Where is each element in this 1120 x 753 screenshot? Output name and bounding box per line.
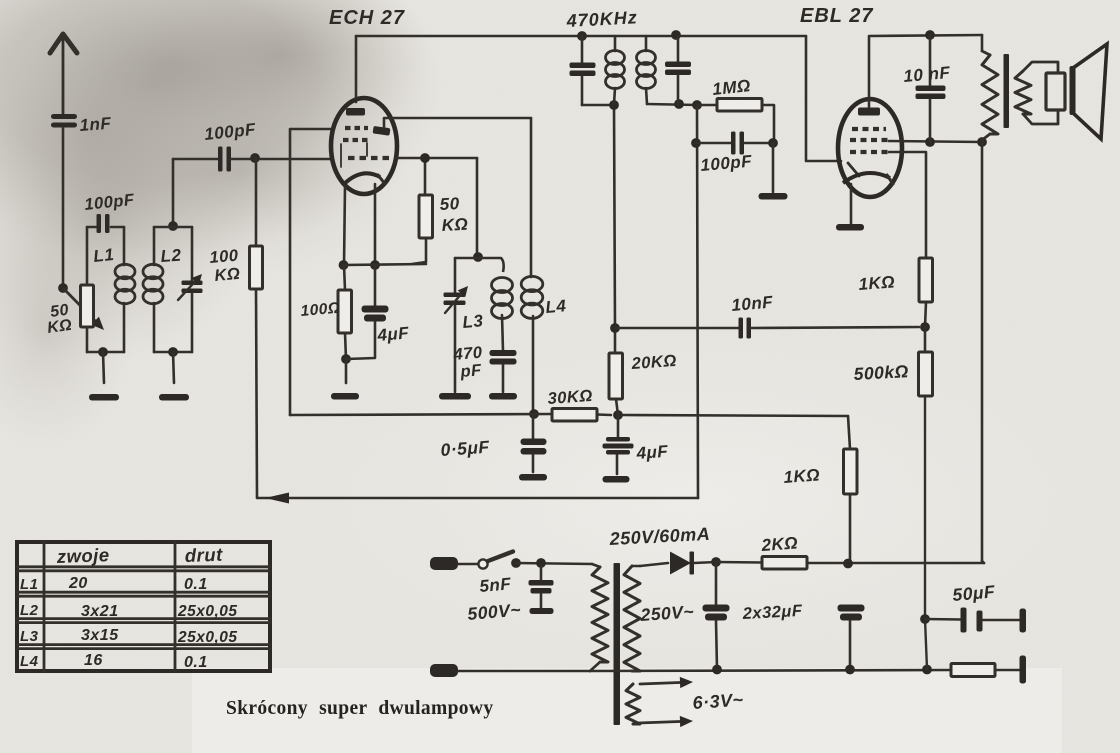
svg-text:100: 100 — [209, 246, 240, 266]
wire grid to L2 top — [172, 159, 175, 226]
EBL21 grid hook — [848, 163, 859, 176]
node antenna-pot junction — [58, 283, 68, 293]
node L3 top — [473, 252, 483, 262]
capacitor 10nF AF coupling — [615, 318, 919, 339]
wire B+ to output transformer — [981, 35, 984, 51]
svg-text:1KΩ: 1KΩ — [783, 465, 821, 487]
svg-text:L4: L4 — [20, 653, 39, 670]
svg-text:3x15: 3x15 — [81, 627, 119, 644]
wire B+ rail right — [981, 142, 984, 561]
svg-text:ECH 27: ECH 27 — [329, 7, 405, 29]
svg-text:L1: L1 — [20, 576, 39, 593]
resistor 2KΩ — [716, 557, 984, 570]
node top bus right — [671, 30, 681, 40]
svg-text:EBL 27: EBL 27 — [800, 5, 873, 27]
node L1 bottom — [98, 347, 108, 357]
wire cathode bottom — [343, 264, 426, 265]
ECH21 grid row 2 — [343, 138, 369, 142]
svg-text:pF: pF — [459, 361, 483, 381]
svg-text:250V~: 250V~ — [639, 601, 695, 625]
svg-text:30KΩ: 30KΩ — [547, 387, 593, 408]
svg-text:0·5μF: 0·5μF — [440, 437, 491, 460]
capacitor 0.5μF — [521, 414, 547, 472]
potentiometer 50kΩ body — [81, 227, 94, 352]
svg-text:2x32μF: 2x32μF — [741, 602, 803, 623]
node 50μF left — [920, 614, 930, 624]
node switch — [511, 558, 521, 568]
wire ground bus bottom — [590, 670, 951, 671]
svg-text:4μF: 4μF — [635, 442, 669, 463]
wire EBL screen to B+ — [889, 141, 982, 142]
resistor 1KΩ cathode — [844, 416, 858, 563]
ground L1 — [89, 352, 119, 401]
mains transformer core — [614, 563, 621, 725]
svg-text:1MΩ: 1MΩ — [711, 76, 751, 99]
svg-text:500kΩ: 500kΩ — [853, 361, 909, 384]
coil table — [17, 542, 270, 671]
wire 500K to ground bus — [925, 619, 927, 669]
diode rectifier — [670, 552, 716, 575]
node 100Ω bottom — [341, 354, 351, 364]
speaker driver — [1046, 73, 1065, 110]
ECH21 cathode arc — [344, 173, 385, 184]
resistor 1KΩ screen — [919, 258, 933, 327]
light area bottom caption strip — [192, 668, 1062, 753]
output transformer core — [1004, 54, 1010, 128]
capacitor 470pF — [490, 350, 517, 392]
heater lead arrow top — [640, 682, 680, 684]
node ground bus 3 — [922, 665, 932, 675]
resistor 100Ω — [338, 265, 352, 359]
node 100pF left — [691, 138, 701, 148]
wire EBL21 anode lead — [869, 35, 982, 107]
coil IF secondary — [637, 36, 656, 104]
EBL21 grid row 2 — [850, 138, 890, 142]
node ground bus 1 — [712, 665, 722, 675]
table row L1 — [20, 575, 208, 593]
capacitor 100pF coupling — [173, 147, 332, 172]
wire ECH21 anode to top bus — [355, 36, 358, 102]
node ground bus 2 — [845, 665, 855, 675]
output transformer secondary — [1015, 62, 1058, 124]
wire L1 bottom — [87, 351, 124, 354]
node IF sec cap bottom — [674, 99, 684, 109]
svg-text:16: 16 — [84, 652, 103, 669]
wire oscillator grid vertical — [290, 129, 333, 415]
wire plug to switch — [458, 563, 477, 566]
wire EBL diode out — [889, 152, 926, 258]
resistor 50KΩ oscillator grid — [412, 158, 433, 264]
svg-text:L2: L2 — [160, 246, 182, 266]
svg-text:L1: L1 — [92, 245, 115, 266]
capacitor 50μF — [925, 608, 1019, 633]
capacitor 10nF anode — [916, 35, 946, 142]
wire B+ corner — [982, 561, 984, 563]
coil IF primary — [606, 36, 625, 104]
node screen divider — [920, 322, 930, 332]
scan smudge top-left — [0, 0, 445, 260]
svg-text:zwoje: zwoje — [55, 544, 110, 567]
wire L2 bottom — [154, 351, 192, 354]
capacitor IF secondary — [665, 36, 691, 104]
svg-text:50μF: 50μF — [952, 581, 997, 605]
svg-text:3x21: 3x21 — [81, 603, 119, 620]
svg-text:1KΩ: 1KΩ — [858, 272, 896, 294]
switch — [478, 552, 513, 569]
node IF primary bottom — [609, 100, 619, 110]
ECH21 signal grid row — [348, 156, 392, 160]
node detector junction — [610, 323, 620, 333]
ground L2 — [159, 352, 189, 401]
wire L3 top — [455, 257, 501, 260]
wire oscillator bus y415 — [290, 414, 552, 415]
capacitor 100pF AVC — [696, 132, 773, 155]
wire top bus — [356, 35, 806, 38]
svg-text:470KHz: 470KHz — [565, 7, 638, 31]
ECH21 triode anode bar — [373, 126, 391, 136]
node grid junction — [250, 153, 260, 163]
resistor 1MΩ — [697, 99, 774, 144]
svg-text:25x0,05: 25x0,05 — [177, 603, 238, 620]
chassis terminal bottom — [1020, 656, 1027, 684]
variable capacitor on L2 — [178, 227, 203, 352]
ground 470pF — [489, 393, 517, 400]
tube ECH21 envelope — [331, 98, 397, 194]
wire IF secondary bottom — [647, 104, 697, 105]
wire EBL grid bus — [806, 36, 841, 161]
table row L2 — [20, 602, 238, 620]
EBL21 anode bar — [858, 108, 880, 116]
mains transformer primary — [590, 564, 608, 671]
mains transformer secondary — [624, 566, 640, 671]
wire EBL21 cathode lead — [850, 184, 853, 224]
wire AVC vertical — [697, 105, 698, 498]
svg-text:Skrócony super dwulampowy: Skrócony super dwulampowy — [226, 698, 493, 719]
potentiometer 50kΩ wiper arrow — [64, 289, 95, 321]
capacitor 2x32μF second — [838, 605, 865, 670]
node screen 10nF — [925, 137, 935, 147]
node IF cap left — [577, 31, 587, 41]
speaker cone mouth bar — [1070, 66, 1076, 115]
wire IF secondary down — [614, 105, 615, 328]
svg-text:0.1: 0.1 — [184, 576, 208, 593]
wire plug bottom to transformer — [458, 670, 590, 673]
label 470 pF — [452, 343, 484, 381]
capacitor 100pF on L1 — [87, 214, 124, 233]
wire to L3 top — [476, 158, 479, 253]
resistor 20KΩ — [609, 328, 623, 415]
ground 4μF detector — [603, 476, 630, 483]
table row L3 — [20, 627, 238, 646]
coil L3 — [492, 258, 513, 351]
node L4 bottom — [529, 409, 539, 419]
mains plug top — [430, 557, 458, 570]
svg-text:20KΩ: 20KΩ — [630, 352, 677, 373]
label 50 KΩ (oscillator) — [439, 194, 469, 235]
svg-text:1nF: 1nF — [79, 114, 112, 135]
ground EBL21 cathode — [836, 224, 864, 231]
node EBL anode bus — [925, 30, 935, 40]
wire signal grid to oscillator — [396, 157, 477, 160]
resistor ground-bus to chassis — [951, 664, 1019, 677]
tube EBL21 envelope — [838, 99, 902, 197]
svg-text:L3: L3 — [20, 628, 39, 645]
wire AVC bus with arrow — [257, 493, 698, 504]
capacitor IF primary — [570, 36, 615, 105]
node filter mid — [843, 559, 853, 569]
ground L3 left — [439, 393, 471, 400]
EBL21 cathode arc — [843, 173, 893, 184]
capacitor 4μF oscillator — [347, 265, 389, 359]
heater lead arrow bottom — [638, 721, 680, 723]
node 5nF top — [536, 558, 546, 568]
svg-text:L3: L3 — [462, 311, 484, 332]
svg-text:6·3V~: 6·3V~ — [692, 689, 744, 713]
mains plug bottom — [430, 664, 458, 677]
svg-text:L2: L2 — [20, 602, 39, 619]
capacitor 1nF — [51, 114, 77, 288]
EBL21 grid row 1 — [852, 127, 886, 131]
coil L1 — [115, 227, 135, 352]
svg-text:4μF: 4μF — [376, 323, 410, 345]
label 50KΩ left — [46, 302, 73, 337]
svg-text:50: 50 — [439, 194, 460, 214]
coil L2 — [143, 227, 163, 352]
antenna symbol — [50, 34, 77, 114]
svg-text:25x0,05: 25x0,05 — [177, 629, 238, 646]
svg-text:L4: L4 — [545, 296, 567, 317]
svg-text:KΩ: KΩ — [46, 317, 73, 337]
node signal grid — [420, 153, 430, 163]
node cathode right — [370, 260, 380, 270]
wire L2 top — [154, 226, 192, 229]
svg-text:2KΩ: 2KΩ — [760, 533, 799, 555]
capacitor 2x32μF first — [703, 562, 730, 669]
node 20K bottom — [613, 410, 623, 420]
svg-text:0.1: 0.1 — [184, 654, 208, 671]
wire triode anode lead — [384, 118, 531, 127]
node rectifier output — [711, 557, 721, 567]
chassis terminal 50μF — [1020, 609, 1027, 633]
svg-text:drut: drut — [184, 544, 223, 566]
wire bus to cathode resistor — [622, 415, 848, 416]
node 1M left — [692, 100, 702, 110]
capacitor 4μF detector — [603, 415, 634, 474]
speaker cone — [1073, 44, 1107, 139]
resistor 30KΩ — [552, 409, 611, 422]
capacitor 5nF — [529, 565, 554, 614]
ground 100Ω — [331, 359, 359, 400]
resistor 100KΩ grid leak — [250, 159, 263, 497]
node cathode left — [339, 260, 349, 270]
wire ECH21 cathode leads — [344, 184, 375, 265]
wire secondary to diode — [640, 563, 668, 566]
svg-text:5nF: 5nF — [479, 574, 512, 596]
ECH21 grid support rods — [341, 143, 367, 167]
EBL21 grid row 3 — [850, 150, 890, 154]
node 100pF right — [768, 138, 778, 148]
svg-text:10nF: 10nF — [731, 292, 774, 315]
node screen B+ — [977, 137, 987, 147]
node L2 bottom — [168, 347, 178, 357]
wire switch to transformer — [516, 563, 592, 564]
output transformer primary — [982, 51, 998, 142]
svg-text:100Ω: 100Ω — [300, 300, 341, 320]
table row L4 — [20, 652, 208, 671]
ECH21 anode bar — [346, 108, 365, 116]
node L2 top — [168, 221, 178, 231]
resistor 500KΩ — [919, 327, 933, 619]
ECH21 grid row 1 — [345, 126, 368, 130]
label 100 KΩ — [209, 246, 241, 284]
coil L4 — [521, 118, 543, 414]
svg-text:KΩ: KΩ — [441, 215, 469, 235]
svg-text:20: 20 — [68, 575, 88, 592]
svg-text:KΩ: KΩ — [214, 265, 241, 285]
ground 0.5μF — [519, 474, 547, 481]
mains transformer heater winding — [626, 684, 640, 724]
variable capacitor on L3 — [444, 258, 469, 392]
ground 100pF AVC — [759, 143, 788, 200]
